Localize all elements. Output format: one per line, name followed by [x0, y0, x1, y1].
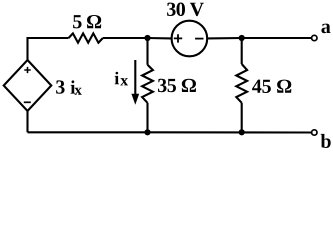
label 35 ohm [158, 79, 196, 92]
current arrow ix (head) [131, 94, 139, 105]
label 45 ohm [252, 80, 291, 93]
wire: voltage source to node B [208, 37, 242, 40]
terminal b (open circle) [312, 130, 317, 135]
plus sign of dependent source [24, 67, 30, 73]
label a [321, 24, 330, 34]
resistor 5 ohm (zigzag) [69, 33, 103, 42]
current arrow ix (shaft) [134, 60, 136, 95]
node: bottom of 45 ohm [239, 129, 245, 135]
plus sign of 30V source [174, 34, 182, 42]
voltage source 30V (circle) [172, 21, 208, 57]
label x sub (ix) [120, 78, 128, 85]
wire: node A down to 35-ohm resistor [146, 38, 148, 65]
label x sub (3ix) [75, 88, 82, 95]
node B (top of 45 ohm) [239, 35, 245, 41]
node: bottom of 35 ohm [144, 129, 150, 135]
wire: 35-ohm resistor to bottom node [146, 103, 148, 133]
label 5 ohm [73, 15, 101, 28]
wire: 5-ohm resistor to node A [103, 37, 148, 39]
label i (ix) [115, 72, 119, 85]
label 30 V [167, 3, 204, 17]
minus sign of 30V source [195, 38, 203, 40]
resistor 35 ohm (zigzag) [142, 65, 153, 103]
wire: node B to terminal a [242, 37, 311, 39]
resistor 45 ohm (zigzag) [236, 64, 247, 103]
minus sign of dependent source [24, 101, 31, 103]
label b [321, 134, 331, 148]
wire: bottom rail right section to terminal b [148, 131, 312, 133]
dependent source 3ix (diamond) [4, 60, 52, 111]
wire: node B down to 45-ohm resistor [241, 38, 243, 64]
wire: dependent source bottom to bottom-left corner [26, 111, 28, 132]
wire: 45-ohm resistor to bottom node [241, 103, 243, 133]
wire: top-left from dependent source top to 5-ohm resistor [28, 38, 69, 60]
terminal a (open circle) [312, 35, 317, 40]
wire: node A to voltage source [148, 37, 172, 40]
label i (3ix) [71, 80, 76, 93]
label 3 [56, 80, 65, 93]
node A (top of 35 ohm) [144, 35, 150, 41]
wire: bottom rail left section [28, 131, 148, 133]
